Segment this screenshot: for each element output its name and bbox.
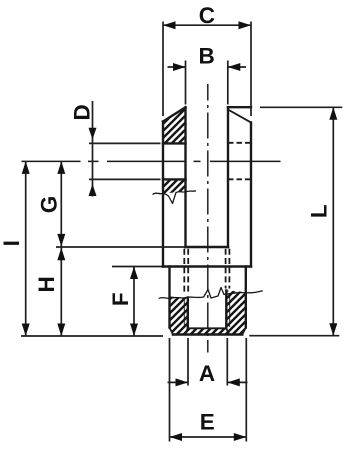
svg-text:E: E [200, 410, 215, 435]
svg-text:A: A [199, 361, 215, 386]
svg-text:D: D [69, 104, 94, 120]
svg-text:I: I [0, 240, 24, 246]
svg-text:H: H [34, 276, 59, 292]
svg-text:B: B [198, 43, 214, 68]
svg-text:G: G [36, 196, 61, 214]
svg-text:L: L [307, 204, 332, 218]
svg-text:F: F [108, 292, 133, 306]
svg-text:C: C [199, 3, 215, 28]
